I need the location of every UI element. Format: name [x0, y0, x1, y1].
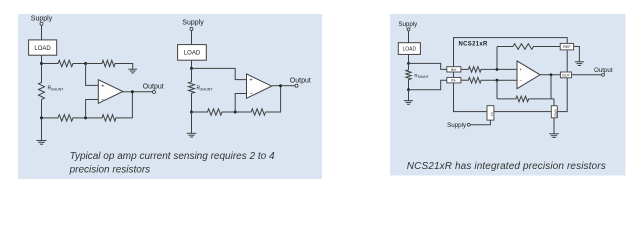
- wire load to shunt top node: [41, 55, 43, 63]
- wire shunt bottom to gain resistor: [192, 111, 207, 113]
- node shunt bottom junction (middle): [190, 111, 193, 114]
- svg-text:NCS21xR has integrated precisi: NCS21xR has integrated precision resisto…: [407, 161, 606, 172]
- svg-text:Supply: Supply: [182, 20, 204, 27]
- wire load to junction (right): [408, 54, 410, 63]
- wire supply to load (middle): [191, 31, 193, 45]
- svg-text:RSHUNT: RSHUNT: [414, 73, 428, 79]
- IC box NCS21xR: [454, 38, 568, 112]
- resistor R2 (to ground ref): [101, 60, 116, 66]
- svg-text:Output: Output: [143, 84, 164, 91]
- ground (left circuit): [37, 140, 47, 142]
- node Output terminal (right): [602, 73, 605, 76]
- resistor R4 (feedback): [86, 117, 101, 119]
- wire OUT to Output terminal: [572, 74, 602, 76]
- wire feedback up to output node: [550, 75, 552, 99]
- pin box IN+: [447, 67, 461, 72]
- node Output terminal (middle): [295, 84, 298, 87]
- resistor Rg (middle): [206, 109, 223, 115]
- ground (right circuit): [404, 100, 413, 102]
- node Output terminal (left): [153, 90, 156, 93]
- node - input junction: [496, 79, 499, 82]
- svg-text:Output: Output: [594, 67, 613, 74]
- node shunt top junction (right): [407, 62, 410, 65]
- pin box IN-: [447, 77, 461, 83]
- resistor internal R1 (IN+ row): [468, 67, 483, 73]
- pin box REF: [560, 43, 573, 50]
- svg-text:V+: V+: [490, 112, 494, 116]
- node shunt bottom junction: [40, 116, 43, 119]
- wire output node down to GND pin: [553, 99, 555, 106]
- wire to IN- pin: [409, 80, 447, 90]
- wire node A to op-amp + input: [86, 64, 99, 86]
- svg-text:GND: GND: [553, 109, 557, 117]
- wire feedback to output node (middle): [267, 86, 281, 112]
- svg-text:Supply: Supply: [447, 122, 467, 129]
- svg-text:LOAD: LOAD: [184, 51, 201, 57]
- resistor Rshunt (right): [408, 63, 410, 69]
- svg-text:NCS21xR: NCS21xR: [459, 42, 488, 48]
- wire + node to REF resistor: [496, 47, 498, 70]
- wire op-amp output (middle): [272, 85, 281, 87]
- svg-text:−: −: [519, 78, 522, 83]
- node + input junction: [496, 68, 499, 71]
- wire node B to op-amp - input: [86, 100, 99, 118]
- svg-text:+: +: [519, 67, 522, 72]
- ground (middle circuit): [187, 132, 197, 134]
- pin box V+: [487, 106, 494, 120]
- wire supply to load (right): [408, 31, 410, 43]
- resistor Rshunt (left): [41, 64, 43, 82]
- wire supply to load: [41, 25, 43, 40]
- wire R1 to node A: [74, 63, 86, 65]
- pin box OUT: [560, 72, 571, 78]
- svg-text:LOAD: LOAD: [402, 47, 416, 53]
- svg-text:precision resistors: precision resistors: [69, 164, 151, 175]
- wire to ground (left circuit): [41, 118, 43, 141]
- load box LOAD (middle): [178, 45, 207, 61]
- wire op-amp output (right): [540, 74, 560, 76]
- resistor R1 (top input): [42, 63, 58, 65]
- ground (REF): [575, 61, 584, 63]
- resistor Rshunt (middle): [191, 68, 193, 81]
- svg-text:OUT: OUT: [562, 72, 571, 77]
- load box LOAD (right): [398, 43, 420, 55]
- wire feedback to output: [117, 92, 132, 118]
- resistor R3 (bottom input): [42, 117, 58, 119]
- svg-text:IN-: IN-: [451, 78, 457, 83]
- svg-text:−: −: [101, 97, 104, 103]
- node output junction (right): [550, 73, 553, 76]
- node shunt top junction: [40, 62, 43, 65]
- svg-text:Supply: Supply: [31, 16, 53, 23]
- node C (op-amp - node, middle): [234, 111, 237, 114]
- node B (op-amp - node): [84, 116, 87, 119]
- svg-text:Supply: Supply: [398, 21, 418, 28]
- svg-text:−: −: [249, 92, 252, 98]
- op-amp U1: [98, 80, 123, 104]
- wire node C to op-amp - input: [235, 94, 246, 113]
- wire to ground (right circuit): [408, 90, 410, 101]
- wire Supply to V+ pin: [470, 120, 490, 125]
- svg-text:IN+: IN+: [451, 67, 458, 72]
- svg-text:LOAD: LOAD: [34, 46, 51, 52]
- svg-text:+: +: [249, 78, 252, 84]
- right panel background: [390, 14, 626, 176]
- svg-text:+: +: [101, 83, 104, 89]
- wire to IN+ pin: [409, 63, 447, 69]
- node A (op-amp + node): [84, 62, 87, 65]
- node output junction (middle): [279, 84, 282, 87]
- ground (GND pin): [549, 133, 559, 135]
- left panel background: [18, 14, 322, 179]
- resistor internal R4 (feedback): [496, 80, 498, 99]
- node shunt top junction (middle): [190, 67, 193, 70]
- svg-text:Output: Output: [290, 77, 311, 84]
- op-amp U3 (right): [517, 61, 540, 89]
- wire to op-amp + input (middle): [192, 68, 247, 79]
- svg-text:Typical op amp current sensing: Typical op amp current sensing requires …: [70, 151, 275, 162]
- wire R2 to ground: [116, 64, 133, 70]
- ground (reference): [128, 68, 137, 70]
- wire REF to ground: [574, 47, 580, 62]
- op-amp U2 (middle): [247, 74, 272, 98]
- pin box GND: [551, 106, 557, 118]
- wire load to junction (middle): [191, 60, 193, 68]
- load box LOAD: [29, 40, 57, 55]
- resistor internal R2 (IN- row): [468, 77, 483, 83]
- wire GND pin to ground: [553, 118, 555, 134]
- resistor internal R3 (to REF): [497, 46, 512, 48]
- resistor Rf (feedback, middle): [235, 111, 250, 113]
- svg-text:REF: REF: [563, 44, 571, 49]
- node shunt bottom junction (right): [407, 88, 410, 91]
- wire to ground (middle): [191, 112, 193, 133]
- wire op-amp output: [123, 91, 132, 93]
- node output junction: [131, 90, 134, 93]
